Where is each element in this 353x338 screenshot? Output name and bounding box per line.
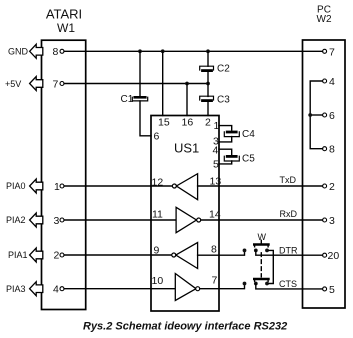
svg-text:C5: C5 xyxy=(242,154,255,165)
capacitor C2 xyxy=(200,51,231,83)
wire GND to C1 xyxy=(139,51,141,96)
svg-text:1: 1 xyxy=(214,120,220,132)
node GND-C1 xyxy=(138,49,142,53)
node W2 bracket xyxy=(308,113,312,117)
GND arrow xyxy=(30,44,43,58)
svg-text:6: 6 xyxy=(329,110,335,122)
svg-text:3: 3 xyxy=(329,215,335,227)
W2 pin 20 xyxy=(323,253,327,257)
svg-text:W2: W2 xyxy=(317,14,332,25)
wire GND to pin15 xyxy=(162,51,164,115)
capacitor C1 xyxy=(121,94,148,105)
wire PIA1 row left xyxy=(64,254,172,256)
wire CTS xyxy=(256,284,323,289)
svg-text:C4: C4 xyxy=(242,129,255,140)
svg-text:PIA2: PIA2 xyxy=(6,215,26,225)
driver buffer 4 xyxy=(175,274,199,301)
receiver buffer 1 xyxy=(172,174,197,200)
svg-text:C3: C3 xyxy=(217,95,230,106)
svg-text:5: 5 xyxy=(213,159,219,171)
svg-text:20: 20 xyxy=(328,250,340,262)
pin 5 wire xyxy=(219,161,232,164)
svg-text:8: 8 xyxy=(53,46,59,58)
wire RxD xyxy=(201,219,323,221)
capacitor C4 xyxy=(224,129,255,140)
svg-text:ATARI: ATARI xyxy=(46,7,82,22)
capacitor C5 xyxy=(224,154,255,165)
driver buffer 2 xyxy=(176,207,201,232)
PIA2 arrow xyxy=(30,213,43,227)
wire GND row xyxy=(64,50,322,52)
capacitor C3 xyxy=(200,84,231,116)
receiver buffer 3 xyxy=(172,243,198,269)
svg-text:W1: W1 xyxy=(57,21,75,35)
wire PIA2 row left xyxy=(64,219,176,221)
svg-text:TxD: TxD xyxy=(280,175,297,185)
svg-text:C1: C1 xyxy=(121,94,134,105)
svg-text:C2: C2 xyxy=(217,64,230,75)
node +5V-pin16 xyxy=(185,82,189,86)
wire PIA0 row left xyxy=(64,185,172,187)
node GND-pin15 xyxy=(161,49,165,53)
svg-text:PIA0: PIA0 xyxy=(6,181,26,191)
svg-text:RxD: RxD xyxy=(280,209,298,219)
svg-text:2: 2 xyxy=(54,250,60,262)
W2 pin 6 xyxy=(323,113,327,117)
svg-text:4: 4 xyxy=(53,284,59,296)
svg-text:7: 7 xyxy=(329,46,335,58)
wire +5V to pin16 xyxy=(186,84,188,116)
switch W top pole xyxy=(254,240,269,252)
svg-text:6: 6 xyxy=(154,131,160,143)
svg-text:5: 5 xyxy=(329,284,335,296)
IC US1 xyxy=(151,116,219,312)
W2 pin 4 xyxy=(323,79,327,83)
wire PIA3 row left xyxy=(64,288,175,290)
svg-text:16: 16 xyxy=(182,117,194,129)
pin 1 wire xyxy=(219,126,232,130)
svg-text:7: 7 xyxy=(212,275,218,287)
svg-text:4: 4 xyxy=(329,76,335,88)
PIA0 arrow xyxy=(30,179,43,193)
connector W1 xyxy=(42,40,86,309)
svg-text:10: 10 xyxy=(152,275,164,287)
svg-text:2: 2 xyxy=(329,181,335,193)
svg-text:3: 3 xyxy=(54,215,60,227)
connector W2 xyxy=(303,40,346,308)
svg-text:GND: GND xyxy=(8,47,29,57)
PIA3 arrow xyxy=(30,282,43,296)
wire C1 to pin6 xyxy=(140,101,151,136)
svg-text:DTR: DTR xyxy=(279,246,298,256)
wire loopback DTR-CTS xyxy=(269,250,273,283)
wire pin7 to switch xyxy=(200,284,245,289)
svg-text:CTS: CTS xyxy=(279,279,297,289)
node +5V-C2C3 xyxy=(206,82,210,86)
svg-text:PIA1: PIA1 xyxy=(8,250,28,260)
wire pin8 to switch xyxy=(198,250,245,255)
W2 pin 2 xyxy=(323,184,327,188)
svg-text:11: 11 xyxy=(152,209,163,221)
wire W2 bracket 4-6-8 xyxy=(310,81,322,149)
svg-text:1: 1 xyxy=(54,181,60,193)
svg-text:4: 4 xyxy=(213,145,219,157)
svg-text:8: 8 xyxy=(211,244,217,256)
svg-text:9: 9 xyxy=(154,245,160,257)
svg-text:PIA3: PIA3 xyxy=(6,284,26,294)
svg-text:W: W xyxy=(258,232,267,242)
svg-text:7: 7 xyxy=(53,79,59,91)
pin 4 wire xyxy=(219,149,232,154)
svg-text:Rys.2 Schemat ideowy interface: Rys.2 Schemat ideowy interface RS232 xyxy=(83,321,287,333)
W2 pin 5 xyxy=(323,287,327,291)
PIA1 arrow xyxy=(30,248,43,262)
svg-text:US1: US1 xyxy=(174,141,199,156)
wire DTR xyxy=(256,250,323,255)
wire +5V row xyxy=(64,83,208,85)
svg-text:12: 12 xyxy=(152,177,164,189)
svg-text:15: 15 xyxy=(158,117,170,129)
svg-text:+5V: +5V xyxy=(5,79,21,89)
W2 pin 8 xyxy=(323,147,327,151)
node switch bottom A xyxy=(243,282,247,286)
pin 3 wire xyxy=(219,137,232,142)
W2 pin 3 xyxy=(323,218,327,222)
wire TxD xyxy=(198,185,323,187)
svg-text:2: 2 xyxy=(205,117,211,129)
node GND-C2 xyxy=(206,49,210,53)
switch linkage dashed xyxy=(260,253,262,277)
svg-text:14: 14 xyxy=(209,209,221,221)
switch W bottom pole xyxy=(254,279,269,285)
+5V arrow xyxy=(30,77,43,91)
W2 pin 7 xyxy=(323,49,327,53)
node switch top A xyxy=(243,249,247,253)
svg-text:8: 8 xyxy=(329,144,335,156)
